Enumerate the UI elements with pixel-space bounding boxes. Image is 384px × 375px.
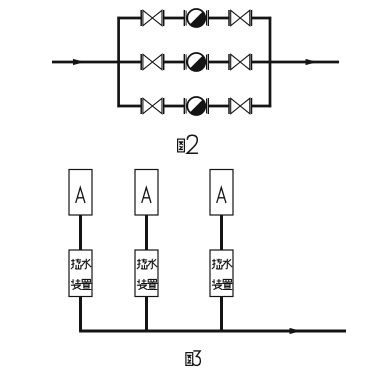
label 装置 branch1 xyxy=(71,279,92,290)
branch 3 trap device box xyxy=(210,250,233,297)
wire: row1 segment valve1-trap xyxy=(164,17,185,20)
branch 1 box A xyxy=(69,170,92,216)
wire: branch2 device to header xyxy=(145,297,148,332)
wire: row3 segment right xyxy=(252,105,272,108)
wire: branch3 device to header xyxy=(220,297,223,332)
wire: row1 segment left xyxy=(117,17,141,20)
wire: right manifold vertical xyxy=(269,17,272,107)
wire: branch1 A to trap device xyxy=(79,215,82,250)
valve row1 left xyxy=(141,10,164,26)
label 装置 branch2 xyxy=(137,279,158,290)
arrow outlet xyxy=(306,59,318,65)
wire: row1 segment trap-valve2 xyxy=(208,17,229,20)
arrow inlet xyxy=(73,59,85,65)
wire: inlet line row2 left xyxy=(52,61,141,64)
valve row3 right xyxy=(229,98,252,114)
label 疏水 branch2 xyxy=(137,259,157,269)
wire: row2 segment valve1-trap xyxy=(164,61,185,64)
wire: row1 segment right xyxy=(252,17,272,20)
branch 3 box A xyxy=(210,170,233,216)
wire: outlet line row2 right xyxy=(252,61,339,64)
wire: left manifold vertical xyxy=(117,17,120,107)
steam trap row2 xyxy=(184,53,208,71)
wire: row2 segment trap-valve2 xyxy=(208,61,229,64)
label 疏水 branch1 xyxy=(71,259,91,269)
branch 2 trap device box xyxy=(135,250,158,297)
wire: branch1 device to header xyxy=(79,297,82,332)
valve row2 right xyxy=(229,54,252,70)
caption 图2 xyxy=(178,135,198,153)
branch 2 box A xyxy=(135,170,158,216)
label A branch2 xyxy=(142,187,151,203)
wire: branch3 A to trap device xyxy=(220,215,223,250)
label A branch3 xyxy=(217,187,226,203)
wire: row3 segment trap-valve2 xyxy=(208,105,229,108)
valve row2 left xyxy=(141,54,164,70)
label 疏水 branch3 xyxy=(212,259,232,269)
wire: row3 segment valve1-trap xyxy=(164,105,185,108)
branch 1 trap device box xyxy=(69,250,92,297)
caption 图3 xyxy=(186,351,200,366)
wire: row3 segment left xyxy=(117,105,141,108)
wire: bottom header line xyxy=(79,330,346,333)
steam trap row1 xyxy=(184,9,208,27)
arrow header xyxy=(290,328,302,334)
valve row3 left xyxy=(141,98,164,114)
valve row1 right xyxy=(229,10,252,26)
wire: branch2 A to trap device xyxy=(145,215,148,250)
steam trap row3 xyxy=(184,97,208,115)
label A branch1 xyxy=(76,187,85,203)
label 装置 branch3 xyxy=(212,279,233,290)
